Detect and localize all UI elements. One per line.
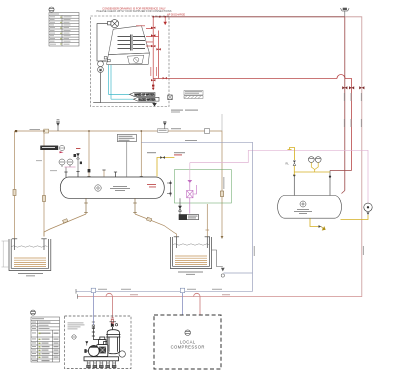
bottom return line (pink) [78,295,362,296]
equalizer stub (red) [164,17,167,25]
red labels inside condenser box [136,25,157,76]
legend table text marks [50,14,72,45]
tank2 caption [178,272,203,275]
down-leg to tank1 (tan diagonal) [44,214,86,237]
receiver inlet drop left [294,171,330,196]
tank1 dimension bracket [2,241,10,267]
svg-text:HP DISCHARGE: HP DISCHARGE [167,13,186,16]
drain arrow 45deg [321,227,325,231]
aux valve left of motor [86,342,88,346]
vent valve on header [56,120,60,131]
spray pump circles [98,61,104,73]
valves below liquid header [151,79,155,81]
suction inlet fittings on blue drop [92,322,95,329]
tank2 pipe flanges [174,237,210,248]
chilled water tank 1 [9,239,51,271]
valve symbols on condenser pipes [151,27,167,91]
schedule table text [32,318,59,361]
junction dots above receiver [293,174,331,178]
svg-text:BLEED WATER: BLEED WATER [139,98,156,101]
valve on tank riser left [13,190,16,196]
suction drop symbols on bottom header [91,288,185,292]
junction dots on hot gas header [152,16,166,18]
svg-text:PLEASE CHECK WITH YOUR SUPPLIE: PLEASE CHECK WITH YOUR SUPPLIER FOR CONN… [96,9,171,13]
strainer on liquid line [187,180,192,183]
tank2 water line [173,244,209,245]
hot gas riser pipe [152,17,154,79]
motor [85,346,99,357]
LP line branch vertical (from top line) [344,17,346,191]
valve on diagonal 1 [63,219,68,223]
svg-text:COMPRESSOR: COMPRESSOR [171,345,205,350]
leader line above oil line [221,114,223,131]
dimension text left of vessel [36,160,57,171]
separator inlet valve stack [110,322,118,327]
legend symbol circle (top-left) [49,7,54,12]
oil line end arrow [221,236,224,239]
down-leg to tank2 (tan diagonal) [135,214,176,237]
vessel bottom outlet stubs [84,198,137,214]
relief Y piping (yellow) [294,162,330,172]
overflow drain symbol on box bottom [153,103,157,107]
vessel manway symbol [95,185,101,191]
condenser note text (above dashed box) [96,7,171,14]
local compressor tag circle [185,330,191,336]
liquid level gauge circle [364,203,372,211]
pipe spec text row [171,110,198,113]
pipe labels on pink return [130,293,230,296]
relief valve RL on vent [293,161,296,166]
package 1 note text [68,323,85,330]
discharge fittings on red drop [111,318,114,326]
basin sump with strainer [128,55,144,64]
legend table (top-left) [49,13,79,47]
discharge pipe separator to compressor [92,326,107,345]
gauge connection valve [367,212,370,215]
schedule table green cells [39,333,41,359]
tan header pipe (hot gas to tanks) [15,131,223,239]
svg-text:M: M [99,69,101,72]
receiver manway [300,201,306,207]
valves on yellow stub [160,156,165,159]
skid base [84,357,119,361]
drain valve [319,225,322,228]
rotated label on equalizer drop [253,246,256,256]
level switches on basin [104,57,110,62]
vent symbol at line end [341,8,350,17]
line end flags bottom left [76,289,78,299]
vessel level gauges TI PI [59,159,73,172]
field piping note block [184,91,203,99]
hot gas drops to compressors (red) [106,293,200,318]
tank2 right riser [206,204,210,237]
rotated line labels right risers [344,93,364,255]
tank1 pipe flanges [12,239,47,250]
solenoid valve (purple) [187,183,197,214]
vessel nozzle labels (red) [147,184,156,187]
vessel label text [110,186,130,191]
tank1 water line [12,246,48,247]
pump suction pipe [93,24,154,103]
package 1 tag circle [72,335,76,339]
condenser coil tubes [118,35,146,51]
low pressure receiver tank (right) [278,196,342,219]
hot gas discharge line HP (dark red, top) [153,16,345,18]
red mark near label [60,151,64,153]
header label text [30,128,41,131]
oil drain label plate [179,215,199,220]
dual relief gauges [308,157,321,163]
receiver vent hook (yellow) [288,148,295,176]
tank2 coil [175,256,207,264]
section marker symbol [168,95,172,100]
tank1 coil [14,258,46,266]
valves on right risers [342,86,364,89]
equipment schedule symbol circle [31,310,36,315]
receiver drain (yellow) [310,218,319,226]
valve on diagonal 2 [147,217,152,221]
inline instrument box on header [205,129,210,134]
valve on tank riser 2 [43,196,46,202]
suction line labels [98,288,222,291]
liquid feed line (pink) [190,150,368,203]
skid feet [87,361,116,368]
condenser inlet/outlet valves (red) [146,17,159,88]
suction drops to compressors (blue) [93,293,182,326]
condenser basin section [107,53,150,64]
oil line valve [220,191,223,197]
receiver fill line from condenser [330,171,352,194]
svg-text:MAKE-UP WATER: MAKE-UP WATER [135,94,155,97]
make-up water line (cyan) [108,65,133,99]
accumulator vessel (main, horizontal) [60,177,164,198]
legend green cell marks [60,17,62,45]
level column at vessel right end [167,181,171,197]
LLSV package boundary (green) [174,170,231,203]
vessel bottom drain valve to oil pot [179,198,182,214]
condensed liquid line (red, y78) [153,75,351,171]
relief valve on vessel [76,148,80,172]
junction dots on header [43,130,142,132]
vessel top nozzles [64,170,142,177]
condenser fan [108,20,119,28]
rotated label on oil line [222,177,225,189]
equalizer label [185,140,197,141]
hot gas inlet fitting on vessel [74,154,91,172]
compressor body [97,337,108,357]
make-up water arrow banner 1 [130,93,156,97]
nozzle tag box above vessel [117,135,136,177]
chilled water tank 2 [170,237,211,269]
equipment schedule table [31,317,60,362]
compressor package 1 dashed boundary [65,316,132,369]
labels above yellow stub [147,152,185,155]
local compressor dashed boundary [154,315,221,369]
gauge to tank pipe (yellow) [341,215,369,220]
oil separator vessel [106,327,120,354]
header junction box [44,129,49,133]
receiver label [294,209,312,214]
instrument label box with red tag [41,145,65,150]
header label box 2 [158,129,169,133]
condenser package dashed boundary [91,16,170,107]
skid gauge [119,351,125,357]
tank2 overflow [212,250,225,277]
drain arrow banner 2 [134,97,160,101]
pink capillary under gauges [65,166,76,168]
equalizer line (gray-blue) [76,142,253,291]
svg-text:RL: RL [286,162,290,166]
tank1 caption [18,273,43,276]
yellow instrument stub on vessel top right [157,158,174,177]
evaporative condenser casing (coil section) [108,26,149,55]
header corner fitting [15,130,17,132]
